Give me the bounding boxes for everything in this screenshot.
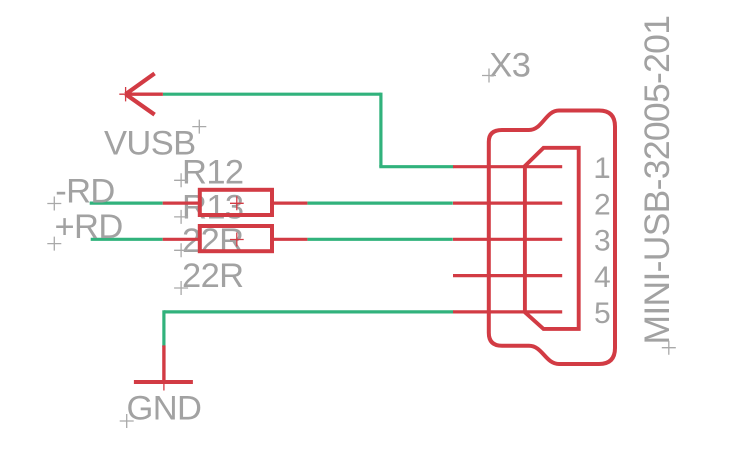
svg-text:4: 4	[594, 261, 611, 294]
svg-text:MINI-USB-32005-201: MINI-USB-32005-201	[637, 16, 677, 345]
svg-text:+RD: +RD	[55, 208, 123, 246]
svg-text:1: 1	[594, 152, 611, 185]
svg-text:3: 3	[594, 225, 611, 258]
svg-text:R13: R13	[182, 189, 244, 227]
svg-text:2: 2	[594, 188, 611, 221]
svg-text:R12: R12	[182, 153, 244, 191]
svg-text:-RD: -RD	[55, 173, 115, 211]
svg-text:GND: GND	[127, 389, 202, 427]
svg-text:22R: 22R	[182, 257, 244, 295]
svg-text:5: 5	[594, 297, 611, 330]
svg-text:X3: X3	[489, 47, 530, 85]
